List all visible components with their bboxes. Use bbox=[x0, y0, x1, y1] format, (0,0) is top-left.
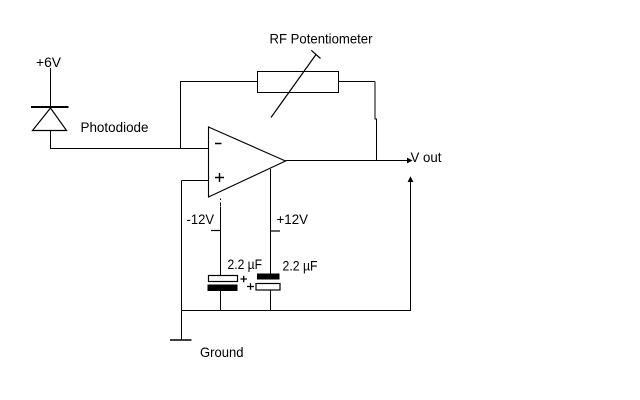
wire -12V supply vertical bbox=[220, 207, 222, 276]
svg-text:V out: V out bbox=[411, 149, 442, 165]
ground symbol bar bbox=[170, 339, 192, 341]
wire +12V supply vertical bbox=[270, 169, 272, 274]
capacitor C1 polarity plus bbox=[241, 276, 248, 283]
svg-text:RF Potentiometer: RF Potentiometer bbox=[270, 31, 373, 47]
wire photodiode anode lead bbox=[50, 131, 52, 150]
capacitor C2 top plate bbox=[257, 274, 280, 280]
potentiometer body bbox=[258, 72, 339, 93]
wire feedback left vertical bbox=[180, 82, 182, 149]
capacitor C1 top plate bbox=[209, 276, 238, 282]
svg-text:2.2 µF: 2.2 µF bbox=[283, 258, 318, 274]
svg-text:-12V: -12V bbox=[187, 211, 215, 227]
wire C2 to ground rail bbox=[270, 290, 272, 311]
op-amp inverting input minus sign bbox=[215, 143, 222, 145]
op-amp U1 triangle bbox=[209, 127, 286, 197]
wire -12V supply dash-dot from op-amp bbox=[220, 199, 222, 207]
wire non-inverting input horizontal bbox=[182, 180, 209, 182]
capacitor C2 bottom plate bbox=[256, 284, 280, 291]
wire non-inverting input vertical down to ground bbox=[181, 181, 183, 341]
svg-text:+12V: +12V bbox=[277, 211, 309, 227]
wire op-amp output to V out bbox=[286, 160, 410, 162]
wire feedback top right segment bbox=[339, 81, 376, 83]
potentiometer wiper arrow bbox=[271, 55, 316, 118]
arrowhead at output wire end bbox=[407, 158, 413, 164]
+12V terminal tick bbox=[271, 230, 281, 232]
svg-text:Ground: Ground bbox=[200, 344, 244, 360]
wire photodiode to op-amp inverting input bbox=[51, 148, 209, 150]
photodiode D1 triangle bbox=[33, 108, 67, 131]
-12V terminal tick bbox=[211, 230, 221, 232]
potentiometer arrowhead tick bbox=[311, 50, 320, 58]
capacitor C2 polarity plus bbox=[247, 283, 254, 290]
wire feedback right vertical with jog bbox=[375, 82, 377, 161]
photodiode D1 cathode bar bbox=[31, 106, 69, 108]
wire +6V lead to photodiode cathode bbox=[50, 68, 52, 107]
capacitor C1 bottom plate bbox=[208, 285, 238, 292]
svg-text:+6V: +6V bbox=[36, 54, 62, 70]
op-amp non-inverting input plus sign bbox=[215, 173, 224, 182]
arrowhead pointing up on sense wire bbox=[408, 176, 414, 182]
wire V out sense vertical bbox=[410, 182, 412, 311]
svg-text:Photodiode: Photodiode bbox=[81, 119, 149, 135]
wire C1 to ground rail bbox=[220, 291, 222, 311]
wire ground rail bottom bbox=[181, 310, 411, 312]
svg-text:2.2 µF: 2.2 µF bbox=[228, 256, 263, 272]
wire feedback top left segment bbox=[180, 81, 258, 83]
